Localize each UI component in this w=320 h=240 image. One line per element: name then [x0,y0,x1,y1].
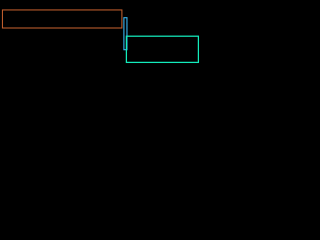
orange rectangle [2,10,121,28]
teal rectangle [126,36,198,62]
background [0,0,200,81]
blue rectangle [124,18,127,50]
